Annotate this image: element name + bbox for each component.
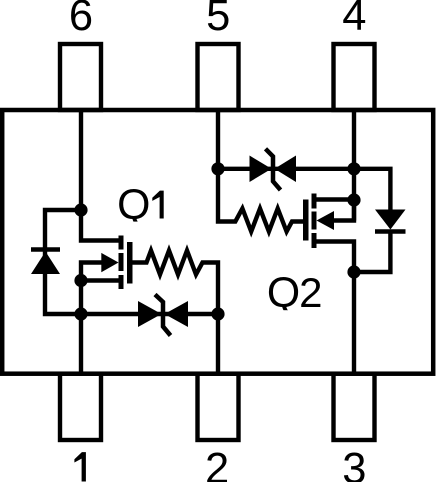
svg-text:4: 4 — [342, 0, 366, 40]
svg-text:3: 3 — [342, 445, 366, 482]
svg-text:6: 6 — [69, 0, 93, 40]
svg-text:Q: Q — [267, 269, 300, 317]
svg-text:2: 2 — [205, 445, 229, 482]
svg-text:5: 5 — [206, 0, 230, 40]
svg-text:2: 2 — [299, 269, 322, 316]
